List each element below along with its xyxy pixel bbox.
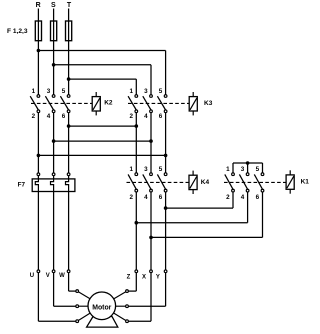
svg-text:K2: K2: [104, 100, 113, 107]
svg-text:3: 3: [241, 166, 245, 173]
svg-text:X: X: [142, 275, 146, 281]
svg-text:1: 1: [129, 166, 133, 173]
svg-text:4: 4: [144, 113, 148, 120]
svg-text:6: 6: [159, 113, 163, 120]
svg-text:S: S: [51, 2, 56, 9]
svg-text:3: 3: [144, 166, 148, 173]
svg-text:4: 4: [241, 194, 245, 201]
svg-text:1: 1: [129, 88, 133, 95]
svg-text:2: 2: [32, 113, 36, 120]
svg-text:1: 1: [32, 88, 36, 95]
svg-text:F 1,2,3: F 1,2,3: [7, 28, 28, 35]
svg-text:2: 2: [226, 194, 230, 201]
svg-text:Motor: Motor: [92, 304, 111, 311]
svg-text:W: W: [59, 273, 65, 279]
svg-text:6: 6: [159, 194, 163, 201]
svg-text:U: U: [30, 273, 34, 279]
svg-text:Y: Y: [156, 275, 160, 281]
svg-text:T: T: [67, 2, 72, 9]
svg-text:5: 5: [159, 88, 163, 95]
svg-text:5: 5: [62, 88, 66, 95]
svg-text:K4: K4: [201, 179, 210, 186]
svg-text:4: 4: [47, 113, 51, 120]
svg-text:2: 2: [129, 194, 133, 201]
svg-text:1: 1: [226, 166, 230, 173]
svg-text:K1: K1: [301, 179, 310, 186]
svg-text:4: 4: [144, 194, 148, 201]
svg-text:5: 5: [256, 166, 260, 173]
svg-text:6: 6: [256, 194, 260, 201]
svg-text:5: 5: [159, 166, 163, 173]
svg-text:6: 6: [62, 113, 66, 120]
svg-text:3: 3: [144, 88, 148, 95]
svg-text:2: 2: [129, 113, 133, 120]
svg-text:Z: Z: [127, 275, 131, 281]
svg-text:F7: F7: [18, 182, 26, 189]
svg-text:R: R: [36, 2, 41, 9]
svg-text:K3: K3: [204, 100, 213, 107]
svg-text:3: 3: [47, 88, 51, 95]
svg-text:V: V: [46, 273, 50, 279]
